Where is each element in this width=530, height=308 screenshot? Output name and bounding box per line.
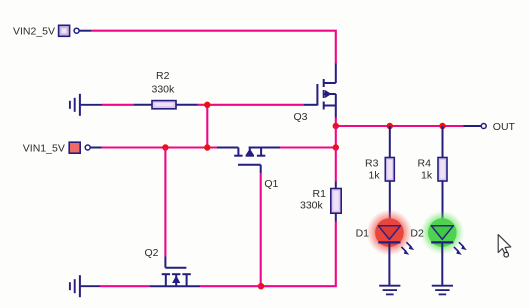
LED D2 (green, lit): [420, 211, 467, 286]
LED D1 (red, lit): [366, 210, 414, 286]
ground (bottom left): [70, 275, 100, 297]
svg-text:330k: 330k: [300, 199, 324, 211]
ground (under D1): [379, 286, 400, 295]
wire rail to Q2 drain: [200, 285, 261, 287]
svg-text:R1: R1: [313, 188, 327, 200]
svg-text:330k: 330k: [152, 84, 176, 96]
mouse cursor: [498, 235, 511, 257]
wire OUT net: [336, 125, 464, 127]
wire VIN2 net to Q3 drain: [91, 31, 336, 64]
resistor R2 330k: [134, 70, 198, 109]
pin connector circle VIN1: [85, 145, 90, 150]
wire R1 bottom to rail corner: [261, 222, 336, 287]
wire VIN1 pin stub: [90, 147, 101, 149]
svg-text:1k: 1k: [421, 169, 433, 181]
svg-text:D2: D2: [410, 227, 424, 239]
junction R2 net / VIN1 rail: [204, 144, 210, 150]
wire OUT pin stub: [464, 125, 482, 127]
wire Q3 source to OUT node: [335, 118, 337, 127]
ground (top left): [70, 94, 102, 116]
transistor Q1: [217, 148, 280, 174]
wire Q1 source to right rail: [280, 146, 336, 148]
wire down to R1: [335, 148, 337, 182]
svg-text:VIN1_5V: VIN1_5V: [23, 142, 65, 154]
junction Q3 source / OUT: [333, 123, 339, 129]
wire ground to R2: [102, 104, 134, 106]
pin terminal VIN2_5V: [59, 25, 70, 36]
pin connector circle OUT: [481, 124, 486, 129]
junction R2/Q3 gate: [204, 102, 210, 108]
wire to Q2 gate: [164, 148, 166, 257]
resistor R4 1k: [418, 126, 448, 226]
svg-text:R4: R4: [418, 157, 432, 169]
pin terminal VIN1_5V: [69, 142, 80, 153]
svg-text:R2: R2: [156, 70, 170, 82]
transistor Q3: [304, 64, 336, 118]
wire Q1 gate down to bottom rail: [260, 173, 262, 286]
wire VIN1 net: [102, 146, 218, 148]
junction VIN1/Q2 gate: [162, 144, 168, 150]
junction rail / R1: [333, 144, 339, 150]
pin connector circle VIN2: [74, 28, 79, 33]
wire R2 to junction: [198, 104, 208, 106]
junction OUT / R3: [387, 123, 393, 129]
svg-text:OUT: OUT: [493, 121, 516, 133]
svg-text:D1: D1: [356, 227, 370, 239]
svg-text:Q2: Q2: [145, 247, 159, 259]
svg-text:Q3: Q3: [294, 111, 308, 123]
wire junction to Q3 gate: [207, 104, 304, 106]
transistor Q2: [150, 257, 200, 287]
junction Q1 gate / bottom rail: [258, 283, 264, 289]
svg-text:1k: 1k: [369, 169, 381, 181]
svg-text:VIN2_5V: VIN2_5V: [13, 25, 55, 37]
wire OUT node down to rail: [335, 126, 337, 148]
wire VIN2 pin stub: [79, 30, 91, 32]
svg-text:R3: R3: [365, 157, 379, 169]
wire junction down to VIN1 rail: [206, 105, 208, 148]
wire ground to Q2 source: [100, 285, 150, 287]
junction OUT / R4: [439, 123, 445, 129]
ground (under D2): [432, 286, 453, 295]
svg-text:Q1: Q1: [264, 178, 278, 190]
resistor R1 330k: [300, 182, 341, 222]
resistor R3 1k: [365, 126, 394, 226]
